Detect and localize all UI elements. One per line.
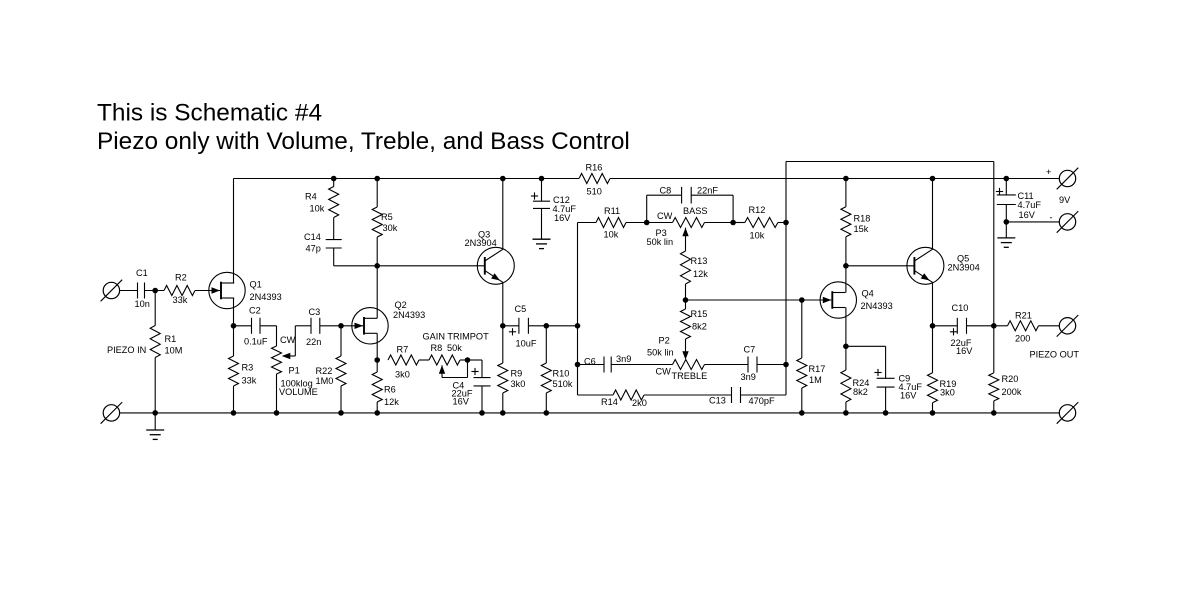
junction R9/ground rail	[500, 410, 506, 416]
node O (P3 right)	[730, 220, 736, 226]
wire node V to Q5 base	[846, 265, 915, 267]
input terminal bottom	[101, 402, 123, 424]
ground (input)	[146, 413, 164, 440]
output terminal bottom	[1057, 402, 1079, 424]
wire input to C1	[120, 290, 138, 292]
trimpot R8	[423, 331, 490, 377]
svg-text:GAIN TRIMPOT: GAIN TRIMPOT	[423, 331, 490, 341]
node J (wiper/C4)	[465, 357, 471, 363]
svg-text:200k: 200k	[1002, 387, 1022, 397]
label 9V	[1059, 195, 1071, 205]
V+ rail left of R16	[234, 178, 580, 180]
transistor Q2	[352, 300, 425, 344]
resistor R1	[150, 291, 182, 413]
svg-text:33k: 33k	[173, 295, 188, 305]
svg-text:R12: R12	[749, 205, 766, 215]
svg-text:C8: C8	[660, 185, 672, 195]
svg-text:3k0: 3k0	[511, 379, 526, 389]
node V (R18/Q4 drain)	[843, 263, 849, 269]
potentiometer P3	[647, 206, 734, 251]
node N (R11/P3 left)	[644, 220, 650, 226]
capacitor C6	[584, 354, 631, 373]
junction P1/ground rail	[274, 410, 280, 416]
resistor R11	[578, 206, 647, 240]
outer feedback rail	[786, 161, 994, 163]
wire R7 lead	[419, 359, 429, 361]
junction R1/ground rail	[152, 410, 158, 416]
node K (C5/R10)	[544, 323, 550, 329]
capacitor C5	[509, 304, 537, 349]
capacitor C7	[741, 344, 758, 382]
transistor Q3	[465, 229, 515, 284]
svg-text:CW: CW	[657, 211, 673, 221]
svg-text:30k: 30k	[383, 223, 398, 233]
junction R22/ground rail	[338, 410, 344, 416]
resistor R4	[305, 179, 339, 240]
resistor R17	[797, 300, 826, 413]
wire node W to C9	[846, 346, 886, 378]
capacitor C2	[244, 305, 268, 346]
svg-text:R11: R11	[604, 206, 620, 216]
wire node D to Q2 drain	[376, 266, 378, 319]
transistor Q1	[209, 272, 282, 308]
svg-text:R13: R13	[691, 256, 708, 266]
svg-text:33k: 33k	[242, 375, 257, 385]
svg-text:C7: C7	[744, 344, 756, 354]
svg-text:R5: R5	[381, 212, 393, 222]
svg-text:Q1: Q1	[250, 279, 262, 289]
resistor R21	[994, 310, 1060, 343]
svg-text:PIEZO IN: PIEZO IN	[107, 345, 146, 355]
svg-text:R2: R2	[175, 272, 187, 282]
output terminal	[1057, 315, 1079, 337]
P2 wiper	[647, 335, 689, 359]
svg-text:1M0: 1M0	[316, 376, 334, 386]
svg-text:16V: 16V	[956, 346, 973, 356]
node R (main/C6)	[575, 362, 581, 368]
tall vertical (R12/C7/C13)	[785, 162, 787, 396]
resistor R10	[541, 326, 573, 413]
resistor R2	[164, 272, 195, 305]
capacitor C9	[874, 369, 922, 400]
node U (rail/R18)	[843, 176, 849, 182]
svg-text:2N4393: 2N4393	[250, 292, 282, 302]
resistor R16	[579, 162, 610, 196]
svg-text:22n: 22n	[306, 337, 321, 347]
capacitor C3	[306, 307, 321, 347]
node M (main/C5 line)	[575, 323, 581, 329]
svg-text:C3: C3	[309, 307, 321, 317]
svg-text:R18: R18	[854, 213, 871, 223]
node AB (C11/battery minus)	[1004, 219, 1010, 225]
svg-text:R17: R17	[809, 364, 826, 374]
svg-text:10n: 10n	[135, 299, 150, 309]
svg-text:R1: R1	[165, 334, 177, 344]
svg-text:R22: R22	[316, 366, 333, 376]
resistor R7	[388, 344, 419, 379]
svg-text:C2: C2	[249, 305, 261, 315]
capacitor C8	[647, 185, 733, 222]
node P (R13/R15/gate line)	[683, 297, 689, 303]
wire C9 to ground rail	[885, 387, 887, 413]
svg-text:PIEZO OUT: PIEZO OUT	[1030, 349, 1080, 359]
junction R20/ground rail	[991, 410, 997, 416]
wire C2 to P1 top	[260, 326, 277, 346]
wire C5 to node K	[528, 325, 546, 327]
svg-text:9V: 9V	[1059, 195, 1071, 205]
svg-text:16V: 16V	[1019, 210, 1036, 220]
node D (R5/C14/Q2 drain)	[374, 263, 380, 269]
svg-text:0.1uF: 0.1uF	[244, 336, 268, 346]
node C (C3/R22)	[338, 323, 344, 329]
capacitor C14	[304, 232, 342, 254]
transistor Q4	[820, 282, 893, 318]
wire Q5 emitter down	[932, 282, 934, 325]
svg-text:22nF: 22nF	[697, 185, 718, 195]
svg-text:R21: R21	[1015, 310, 1032, 320]
svg-text:R10: R10	[553, 368, 570, 378]
node Z (C10/R20/R21)	[991, 323, 997, 329]
wire node C to Q2 gate	[341, 325, 363, 327]
wire gate line	[686, 299, 832, 301]
svg-text:R7: R7	[397, 344, 409, 354]
junction R19/ground rail	[930, 410, 936, 416]
node AA (rail/C11)	[1004, 176, 1010, 182]
capacitor C4	[452, 368, 491, 406]
wire C10 to node Z	[967, 325, 994, 327]
svg-text:3n9: 3n9	[616, 354, 631, 364]
svg-text:BASS: BASS	[683, 206, 708, 216]
wire node K to main vertical	[546, 325, 577, 327]
capacitor C10	[950, 303, 973, 356]
junction R6/ground rail	[374, 410, 380, 416]
svg-text:C6: C6	[584, 356, 596, 366]
svg-text:VOLUME: VOLUME	[279, 387, 318, 397]
wire Q2 source down	[376, 333, 378, 360]
wire C1 to node	[145, 290, 165, 292]
svg-text:12k: 12k	[693, 269, 708, 279]
svg-text:Q4: Q4	[862, 288, 874, 298]
resistor R13	[681, 251, 709, 300]
svg-text:12k: 12k	[384, 397, 399, 407]
node T (gate/R17)	[799, 297, 805, 303]
svg-text:2N3904: 2N3904	[948, 262, 980, 272]
svg-text:CW: CW	[280, 335, 296, 345]
svg-text:50k: 50k	[447, 343, 462, 353]
svg-text:47p: 47p	[306, 243, 321, 253]
node G (rail/R5)	[374, 176, 380, 182]
potentiometer P1	[272, 326, 318, 413]
svg-text:Q2: Q2	[395, 300, 407, 310]
svg-text:R9: R9	[511, 368, 523, 378]
svg-text:P1: P1	[289, 365, 300, 375]
wire Q5 collector up	[932, 179, 934, 250]
svg-text:4.7uF: 4.7uF	[1018, 200, 1042, 210]
svg-text:CW: CW	[656, 366, 672, 376]
wire Q3 emitter to C5	[503, 325, 519, 327]
svg-text:2N3904: 2N3904	[465, 238, 497, 248]
node F (rail/R4)	[331, 176, 337, 182]
wire C11 to node AB	[1005, 205, 1007, 222]
node X (rail/Q5)	[930, 176, 936, 182]
junction C9/ground rail	[883, 410, 889, 416]
svg-text:3k0: 3k0	[395, 369, 410, 379]
wire node V to Q4 drain	[845, 266, 847, 293]
resistor R5	[372, 179, 398, 266]
svg-text:15k: 15k	[854, 224, 869, 234]
svg-text:2N4393: 2N4393	[861, 301, 893, 311]
wire C4 to ground rail	[481, 386, 483, 413]
label PIEZO IN	[107, 345, 146, 355]
wire main vertical corner to R14	[578, 394, 614, 396]
node Q (R12/tall vertical)	[783, 220, 789, 226]
wire C14 to base line	[334, 248, 485, 266]
wire R14 to C13	[644, 394, 732, 396]
svg-text:16V: 16V	[554, 213, 571, 223]
junction C4/ground rail	[479, 410, 485, 416]
svg-text:R16: R16	[586, 162, 603, 172]
node E (Q2 source)	[374, 357, 380, 363]
wire R8 to node J	[460, 359, 468, 361]
svg-text:This is Schematic #4: This is Schematic #4	[97, 100, 322, 127]
svg-text:8k2: 8k2	[853, 387, 868, 397]
wire Q1 source down	[233, 298, 235, 326]
svg-text:16V: 16V	[900, 390, 917, 400]
svg-text:10k: 10k	[604, 229, 619, 239]
wire node J to C4	[468, 360, 483, 378]
node B (Q1 source)	[231, 323, 237, 329]
wire wiper to C3	[295, 325, 311, 327]
resistor R3	[229, 326, 257, 413]
wire node AB to minus terminal	[1006, 221, 1059, 223]
svg-text:50k lin: 50k lin	[647, 237, 674, 247]
svg-text:P2: P2	[659, 335, 670, 345]
junction R17/ground rail	[799, 410, 805, 416]
svg-text:+: +	[1046, 167, 1051, 177]
capacitor C13	[709, 387, 775, 406]
wire C3 to node C	[320, 325, 341, 327]
wire Q5 emitter to C10	[933, 325, 958, 327]
svg-text:8k2: 8k2	[692, 321, 707, 331]
wire C7 to tall vertical	[757, 364, 786, 366]
svg-text:C13: C13	[709, 395, 726, 405]
node I (Q3 emitter/C5)	[500, 323, 506, 329]
svg-text:R14: R14	[601, 397, 618, 407]
resistor R12	[733, 205, 786, 241]
node L (rail/C12)	[539, 176, 545, 182]
svg-text:R20: R20	[1002, 374, 1019, 384]
svg-text:10k: 10k	[750, 230, 765, 240]
capacitor C11	[996, 179, 1041, 220]
main feedback vertical	[577, 223, 579, 396]
wire C6 to P2	[611, 364, 672, 366]
svg-text:-: -	[1050, 212, 1053, 222]
svg-text:Piezo only with Volume, Treble: Piezo only with Volume, Treble, and Bass…	[97, 128, 630, 155]
wire Q4 source down	[845, 308, 847, 347]
svg-text:C14: C14	[304, 232, 321, 242]
svg-text:10M: 10M	[165, 345, 183, 355]
potentiometer P2	[656, 360, 708, 381]
wire Q1 source node to C2	[234, 325, 252, 327]
junction R10/ground rail	[544, 410, 550, 416]
label PIEZO OUT	[1030, 349, 1080, 359]
svg-text:R6: R6	[384, 384, 396, 394]
transistor Q5	[907, 247, 980, 284]
svg-text:R8: R8	[431, 343, 443, 353]
wire Q1 drain up	[233, 179, 235, 284]
resistor R20	[989, 326, 1022, 413]
svg-text:R4: R4	[305, 191, 317, 201]
node Y (Q5 emitter/C10)	[930, 323, 936, 329]
output vertical	[993, 162, 995, 326]
resistor R14	[601, 390, 647, 408]
input terminal top	[101, 280, 123, 302]
junction R3/ground rail	[231, 410, 237, 416]
junction R24/ground rail	[843, 410, 849, 416]
resistor R24	[841, 346, 869, 413]
svg-text:3n9: 3n9	[741, 372, 756, 382]
svg-text:TREBLE: TREBLE	[672, 371, 708, 381]
svg-text:2k0: 2k0	[632, 398, 647, 408]
resistor R15	[681, 300, 708, 339]
svg-text:10k: 10k	[310, 203, 325, 213]
svg-text:1M: 1M	[809, 375, 822, 385]
svg-text:10uF: 10uF	[516, 338, 537, 348]
node W (Q4 source)	[843, 344, 849, 350]
svg-text:200: 200	[1015, 333, 1030, 343]
capacitor C1	[135, 268, 150, 309]
svg-text:C1: C1	[136, 268, 148, 278]
ground (C12)	[533, 208, 551, 248]
wire R2 to Q1 gate	[195, 290, 220, 292]
resistor R18	[841, 179, 870, 266]
resistor R6	[372, 360, 399, 413]
svg-text:2N4393: 2N4393	[393, 310, 425, 320]
resistor R9	[498, 326, 526, 413]
svg-text:C10: C10	[952, 303, 969, 313]
wire Q3 emitter down	[502, 282, 504, 325]
svg-text:510k: 510k	[553, 379, 573, 389]
node S (C7/tall vertical)	[783, 362, 789, 368]
resistor R22	[316, 326, 347, 413]
svg-text:470pF: 470pF	[749, 396, 775, 406]
wire Q3 collector up	[502, 179, 504, 250]
title text	[97, 100, 630, 156]
capacitor C12	[531, 179, 576, 223]
resistor R19	[928, 326, 957, 413]
V+ rail right of R16	[610, 178, 1059, 180]
svg-text:510: 510	[587, 186, 602, 196]
battery plus terminal	[1046, 167, 1078, 189]
svg-text:3k0: 3k0	[940, 387, 955, 397]
wire C13 to tall vertical	[741, 394, 787, 396]
ground (C11)	[997, 222, 1015, 247]
svg-text:R15: R15	[691, 309, 708, 319]
ground rail	[120, 412, 1060, 414]
svg-text:50k lin: 50k lin	[647, 347, 674, 357]
node A (C1/R1)	[152, 288, 158, 294]
battery minus terminal	[1050, 211, 1079, 233]
node H (rail/Q3)	[500, 176, 506, 182]
wire main to C6	[578, 364, 605, 366]
svg-text:16V: 16V	[453, 396, 470, 406]
svg-text:R3: R3	[242, 362, 254, 372]
wire P2 to C7	[705, 364, 749, 366]
svg-text:C5: C5	[515, 304, 527, 314]
